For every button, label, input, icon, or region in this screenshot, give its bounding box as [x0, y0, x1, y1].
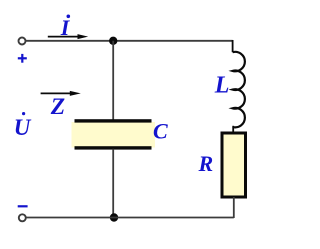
svg-text:Z: Z [50, 94, 65, 120]
wire coil to resistor [232, 126, 234, 132]
wire top horizontal [25, 40, 232, 42]
capacitor C1 top plate [75, 119, 152, 122]
impedance arrow Z [41, 91, 81, 96]
svg-text:U: U [14, 115, 32, 140]
capacitor C1 dielectric fill [72, 122, 156, 148]
node bottom junction [110, 213, 118, 221]
terminal - (bottom-left open circle) [19, 214, 26, 221]
wire right branch upper [232, 40, 234, 52]
wire middle branch lower [112, 149, 114, 218]
svg-text:L: L [214, 73, 230, 99]
wire bottom horizontal [25, 217, 234, 219]
wire middle branch upper [112, 41, 114, 121]
resistor R1 body [222, 133, 246, 197]
node top junction [109, 37, 117, 45]
wire resistor to bottom [233, 197, 235, 218]
svg-text:C: C [153, 119, 168, 144]
polarity plus [18, 54, 27, 63]
label I with dot [60, 14, 71, 40]
polarity minus [18, 205, 28, 207]
current arrow I [48, 34, 88, 39]
inductor L1 coil [233, 52, 245, 128]
terminal + (top-left open circle) [19, 38, 26, 45]
svg-text:R: R [198, 151, 214, 176]
capacitor C1 bottom plate [75, 146, 152, 149]
label U with dot [14, 112, 32, 140]
svg-text:I: I [60, 15, 71, 40]
